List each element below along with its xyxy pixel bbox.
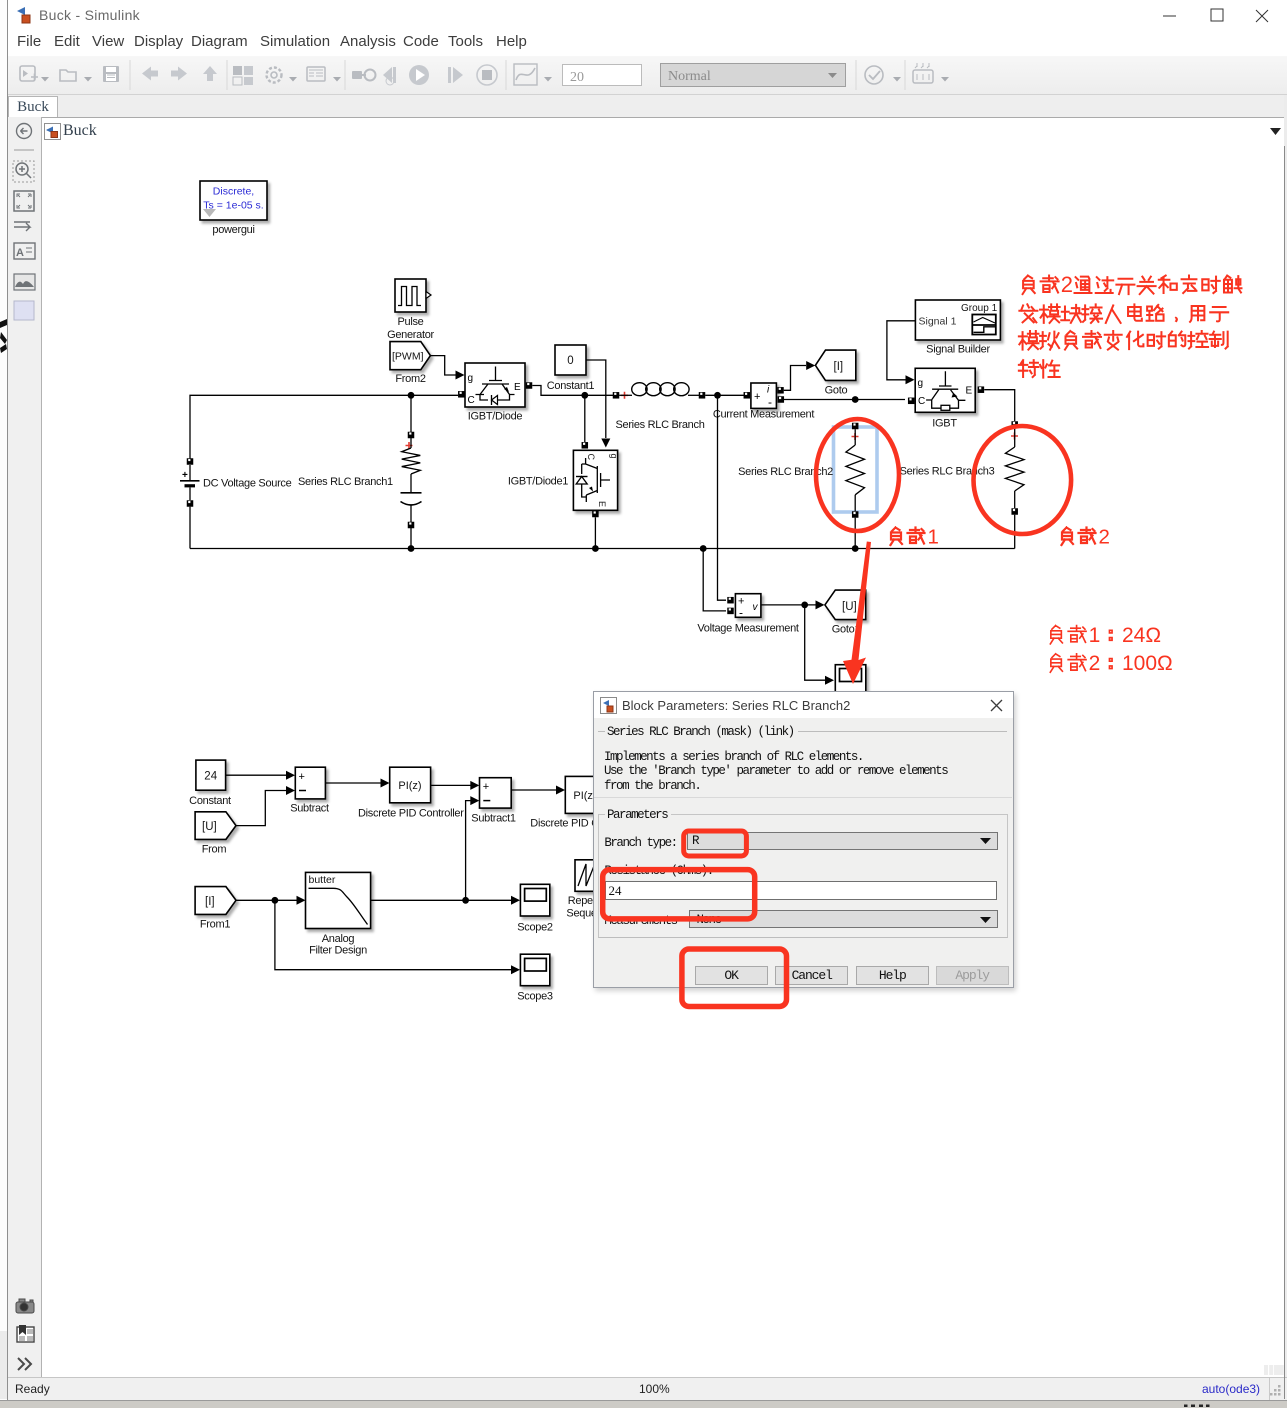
svg-text:24Ω: 24Ω (1122, 624, 1161, 647)
junction after inductor (714, 392, 721, 399)
Constant block value 24 (189, 760, 231, 807)
Constant1 block value 0 (547, 345, 595, 392)
red text load1 = 24 ohm (1050, 624, 1161, 647)
svg-text:1: 1 (1089, 624, 1101, 647)
Series RLC Branch3 resistor (900, 421, 1024, 548)
red arrow to Scope1 (843, 542, 871, 685)
red box on Branch type R (684, 831, 747, 856)
IGBT/Diode1 block (rotated) (508, 450, 619, 510)
powergui block (200, 181, 267, 236)
wire PID to Subtract1 + (431, 781, 479, 790)
top bus wire (DC+ to IGBT/Diode C) (190, 395, 458, 462)
svg-text:2: 2 (1061, 272, 1073, 297)
red annotation paragraph line3 (1019, 331, 1228, 350)
red annotation paragraph line2 (1019, 304, 1228, 323)
From tag [U] (195, 812, 236, 856)
junction From1 out (272, 897, 279, 904)
red text load2 = 100 ohm (1050, 652, 1172, 675)
Subtract1 block (471, 778, 516, 825)
red circle around branch3 (load2) (974, 426, 1072, 534)
Current Measurement block (713, 383, 815, 421)
selection highlight branch2 (834, 427, 878, 512)
wire junction to IGBT/Diode1 C (582, 395, 589, 448)
junction to IGBT/Diode1 C (581, 392, 588, 399)
simulink app icon (16, 6, 33, 24)
port IGBT E out (978, 386, 985, 393)
IGBT/Diode block (465, 363, 525, 423)
wire From2 to IGBT/Diode g (430, 356, 464, 380)
svg-text:1: 1 (928, 526, 939, 549)
junction filter out (462, 897, 469, 904)
DC Voltage Source (180, 458, 292, 507)
wire node to VM + (718, 395, 727, 600)
Discrete PID Controller1 block (behind dialog) (530, 776, 642, 829)
Subtract block (290, 767, 329, 814)
junction bus/branch1 (408, 545, 415, 552)
From1 tag [I] (195, 887, 236, 931)
wire From to Subtract - (236, 786, 295, 826)
port C input IGBT/Diode (458, 391, 465, 398)
IGBT block (908, 368, 975, 429)
Series RLC Branch1 (R+C) (298, 395, 422, 548)
red box on OK button (682, 949, 787, 1007)
wire DC- to bottom bus (189, 507, 191, 549)
From2 tag [PWM] (390, 342, 430, 385)
wire E to inductor (532, 386, 613, 396)
wire junction down to Scope3 (275, 900, 520, 974)
Repeating Sequence block (behind dialog) (566, 860, 615, 920)
svg-text:100Ω: 100Ω (1122, 652, 1173, 675)
junction bus/IGBTDiode1 (592, 545, 599, 552)
Scope1 block (partially behind dialog) (835, 665, 866, 696)
wire VM v to Goto1 and Scope1 (761, 600, 834, 684)
Series RLC Branch inductor (613, 383, 744, 431)
wire IGBT E to branch3 (984, 390, 1015, 421)
window buttons (1150, 6, 1280, 26)
wire Subtract1 to PID1 (512, 786, 566, 795)
bottom bus wire (190, 548, 1015, 550)
Goto1 tag [U] (825, 590, 866, 635)
Scope2 block (517, 884, 553, 933)
Voltage Measurement block (697, 594, 799, 635)
red box on Resistance input (603, 870, 755, 919)
port E output IGBT/Diode (526, 382, 533, 389)
red circle around branch2 (load1) (816, 419, 899, 531)
junction VM out (801, 602, 808, 609)
red label load2 under circle (1062, 526, 1110, 549)
svg-text:2: 2 (1089, 652, 1101, 675)
wire Constant to Subtract + (226, 771, 295, 780)
junction bus/VM- (700, 545, 707, 552)
Pulse Generator block (387, 279, 434, 341)
junction to branch2 (852, 396, 859, 403)
red annotation paragraph line1 (1023, 272, 1242, 297)
wire filtered current to Subtract1 - (466, 796, 480, 900)
wire CM - to IGBT C (784, 399, 905, 401)
wire CM i to Goto (784, 361, 816, 390)
Series RLC Branch2 resistor (738, 423, 864, 549)
junction top bus / branch1 (408, 392, 415, 399)
junction bus/branch2 (852, 545, 859, 552)
wire filter to Scope2 (371, 896, 520, 905)
wire bus to VM - (703, 549, 726, 611)
wire Signal Builder to IGBT g (887, 321, 916, 385)
wire Constant1 to IGBT/Diode1 g (587, 360, 611, 448)
Analog Filter Design block (306, 872, 371, 956)
port IGBT/Diode1 E bottom (592, 511, 599, 549)
Discrete PID Controller block (358, 767, 464, 819)
Scope3 block (517, 954, 553, 1002)
red label load1 under circle (891, 526, 939, 549)
desktop glyph behind window (0, 318, 8, 354)
Signal Builder block (915, 300, 1000, 356)
svg-text:2: 2 (1099, 526, 1110, 549)
wire Subtract to PID (326, 779, 390, 788)
Goto tag [I] (815, 350, 855, 396)
red annotation paragraph line4 (1019, 360, 1060, 377)
wire From1 to filter (236, 896, 306, 905)
